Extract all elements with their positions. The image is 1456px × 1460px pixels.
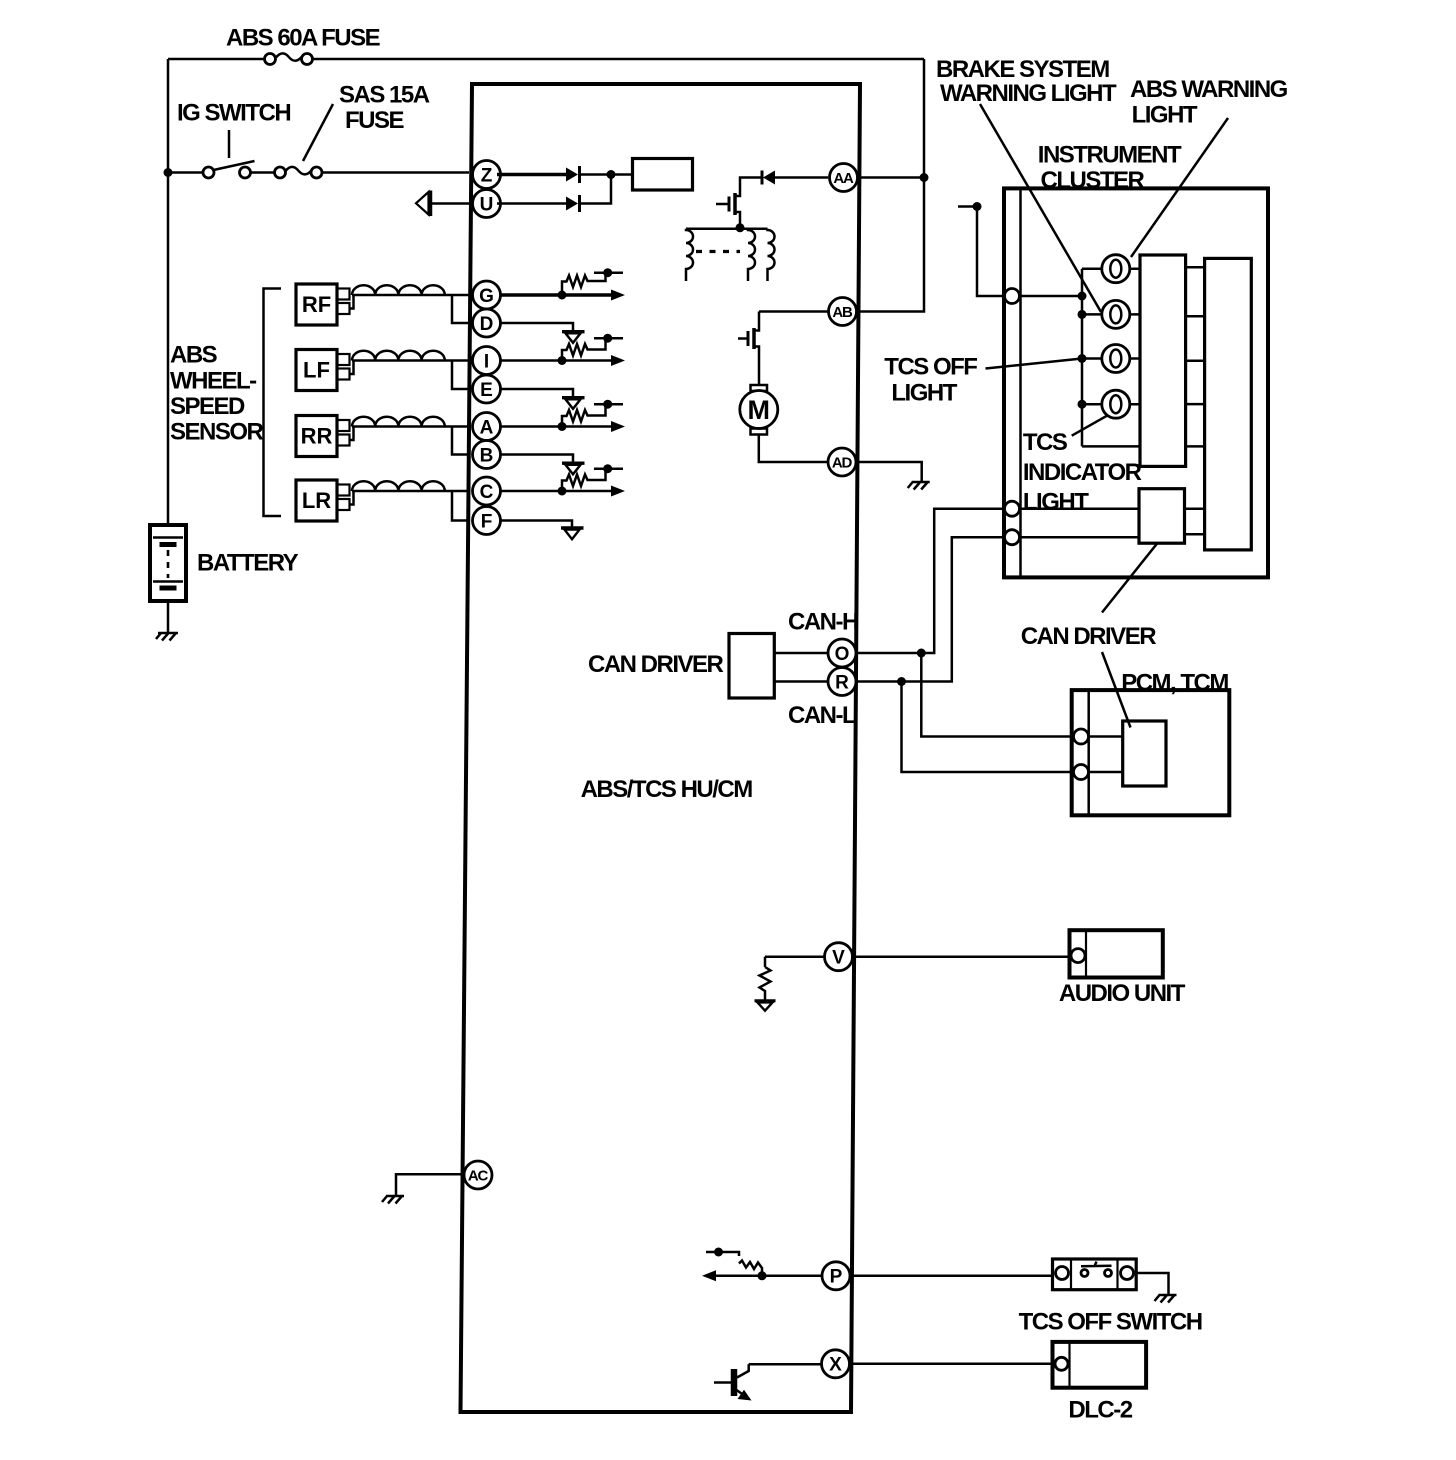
svg-text:SENSOR: SENSOR — [170, 419, 264, 446]
svg-text:LIGHT: LIGHT — [1132, 101, 1198, 128]
svg-text:A: A — [480, 417, 494, 438]
svg-text:ABS/TCS HU/CM: ABS/TCS HU/CM — [581, 776, 753, 803]
svg-text:INDICATOR: INDICATOR — [1023, 459, 1142, 486]
svg-text:P: P — [830, 1267, 843, 1288]
svg-text:INSTRUMENT: INSTRUMENT — [1038, 142, 1182, 169]
svg-text:V: V — [832, 948, 845, 969]
svg-text:LF: LF — [303, 358, 330, 383]
svg-text:G: G — [479, 286, 494, 307]
svg-text:ABS 60A FUSE: ABS 60A FUSE — [226, 25, 381, 52]
svg-text:CAN DRIVER: CAN DRIVER — [588, 651, 724, 678]
svg-text:BRAKE SYSTEM: BRAKE SYSTEM — [936, 56, 1109, 83]
svg-text:CLUSTER: CLUSTER — [1041, 167, 1145, 194]
svg-text:WHEEL-: WHEEL- — [170, 368, 257, 395]
svg-text:CAN-H: CAN-H — [788, 609, 858, 636]
svg-text:SAS 15A: SAS 15A — [339, 81, 430, 108]
svg-text:U: U — [480, 194, 494, 215]
svg-text:AA: AA — [833, 170, 854, 187]
svg-text:LR: LR — [302, 488, 331, 513]
svg-text:C: C — [480, 482, 494, 503]
svg-text:AC: AC — [468, 1168, 489, 1185]
svg-text:I: I — [484, 351, 489, 372]
svg-text:CAN DRIVER: CAN DRIVER — [1021, 623, 1157, 650]
svg-text:TCS: TCS — [1023, 429, 1068, 456]
svg-text:RF: RF — [302, 292, 331, 317]
svg-text:IG SWITCH: IG SWITCH — [177, 99, 290, 126]
svg-text:LIGHT: LIGHT — [891, 379, 957, 406]
svg-text:F: F — [481, 511, 493, 532]
svg-text:SPEED: SPEED — [170, 393, 245, 420]
svg-text:AUDIO UNIT: AUDIO UNIT — [1059, 980, 1186, 1007]
svg-text:X: X — [829, 1355, 842, 1376]
svg-text:LIGHT: LIGHT — [1023, 489, 1089, 516]
svg-text:ABS WARNING: ABS WARNING — [1130, 76, 1288, 103]
svg-text:B: B — [480, 445, 494, 466]
svg-text:AB: AB — [832, 304, 853, 321]
svg-text:DLC-2: DLC-2 — [1068, 1397, 1132, 1424]
svg-text:FUSE: FUSE — [345, 107, 405, 134]
svg-text:Z: Z — [481, 165, 493, 186]
svg-text:AD: AD — [832, 455, 853, 472]
svg-text:TCS OFF SWITCH: TCS OFF SWITCH — [1019, 1309, 1202, 1336]
svg-text:BATTERY: BATTERY — [197, 550, 299, 577]
svg-text:TCS OFF: TCS OFF — [884, 354, 977, 381]
svg-text:RR: RR — [301, 424, 333, 449]
svg-text:CAN-L: CAN-L — [788, 702, 856, 729]
svg-text:R: R — [835, 672, 849, 693]
svg-text:E: E — [480, 380, 493, 401]
svg-text:M: M — [748, 395, 771, 425]
svg-text:O: O — [835, 644, 850, 665]
svg-text:ABS: ABS — [170, 342, 218, 369]
svg-text:WARNING LIGHT: WARNING LIGHT — [940, 80, 1117, 107]
svg-text:PCM, TCM: PCM, TCM — [1121, 670, 1228, 697]
svg-text:D: D — [480, 314, 494, 335]
